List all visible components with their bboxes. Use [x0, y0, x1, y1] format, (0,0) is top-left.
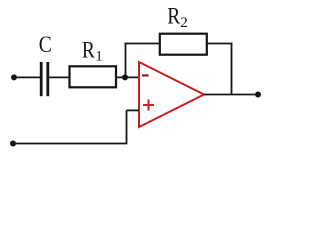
wire op-amp output — [204, 94, 256, 96]
input terminal (left top) — [11, 74, 17, 80]
op-amp inverting sign - — [142, 74, 149, 76]
wire bottom rail — [13, 143, 127, 145]
capacitor C — [41, 62, 48, 96]
wire right vertical down to output — [231, 43, 233, 95]
wire input to capacitor — [14, 76, 40, 78]
output terminal — [255, 92, 261, 98]
wire junction up to feedback branch — [125, 43, 127, 78]
op-amp non-inverting sign + — [143, 99, 154, 110]
label R2 — [167, 4, 188, 32]
svg-text:R: R — [82, 38, 96, 63]
wire riser from bottom rail to non-inverting input — [126, 110, 128, 143]
bottom terminal (left bottom) — [10, 141, 16, 147]
svg-text:2: 2 — [180, 15, 188, 31]
svg-text:R: R — [167, 4, 181, 29]
svg-text:1: 1 — [95, 48, 103, 64]
op-amp U1 — [139, 62, 204, 127]
wire R1 to inverting input — [116, 76, 139, 78]
svg-text:C: C — [39, 32, 52, 57]
node junction at inverting input — [122, 74, 128, 80]
wire feedback branch to R2 — [125, 43, 160, 45]
resistor R2 — [160, 34, 207, 55]
wire R2 to right vertical — [207, 43, 233, 45]
resistor R1 — [70, 66, 117, 87]
wire capacitor to R1 — [49, 76, 69, 78]
label R1 — [82, 38, 103, 65]
wire non-inverting input — [127, 109, 140, 111]
